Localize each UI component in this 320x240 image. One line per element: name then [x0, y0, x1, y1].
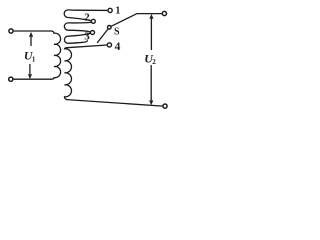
- contact 4: [107, 43, 111, 47]
- svg-text:2: 2: [84, 11, 90, 23]
- wire tap 4: [67, 45, 107, 48]
- voltage arrow U1 down: [29, 65, 31, 75]
- switch S pivot: [108, 26, 112, 30]
- svg-text:S: S: [114, 26, 120, 37]
- svg-text:1: 1: [115, 5, 120, 16]
- voltage arrow U2 up: [150, 18, 152, 50]
- terminal input top-left: [9, 29, 13, 33]
- svg-text:1: 1: [32, 56, 36, 64]
- winding W2 lower section: [65, 48, 72, 100]
- svg-text:3: 3: [84, 31, 90, 43]
- wire bottom-left input: [13, 78, 51, 80]
- winding W1 primary: [51, 31, 61, 79]
- contact 2: [91, 19, 95, 23]
- svg-text:4: 4: [115, 41, 121, 53]
- terminal output bottom-right: [163, 104, 167, 108]
- winding W2 turn 3: [64, 33, 90, 43]
- contact 3: [91, 31, 95, 35]
- wire switch to output: [111, 14, 162, 27]
- svg-text:2: 2: [152, 58, 156, 66]
- terminal input bottom-left: [9, 77, 13, 81]
- winding W2 turn 1 and tap 1 wire: [64, 10, 108, 21]
- switch S arm: [98, 29, 109, 43]
- wire bottom to output: [67, 100, 163, 107]
- wire top-left input: [13, 30, 51, 32]
- terminal output top-right: [162, 11, 166, 15]
- winding W2 turn 2: [64, 22, 91, 32]
- voltage arrow U1 up: [30, 36, 32, 45]
- voltage arrow U2 down: [150, 66, 152, 101]
- contact 1: [108, 8, 112, 12]
